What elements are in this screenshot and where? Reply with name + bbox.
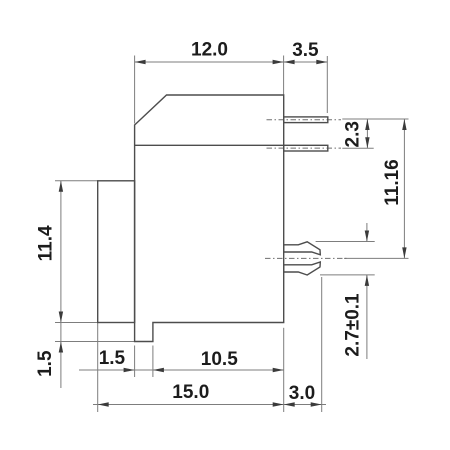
svg-text:12.0: 12.0 <box>191 40 228 61</box>
svg-text:11.4: 11.4 <box>36 225 57 261</box>
svg-text:1.5: 1.5 <box>99 348 126 369</box>
svg-text:2.7±0.1: 2.7±0.1 <box>343 293 364 357</box>
svg-text:15.0: 15.0 <box>172 382 209 403</box>
svg-text:2.3: 2.3 <box>343 121 364 147</box>
svg-text:3.0: 3.0 <box>289 383 315 404</box>
svg-text:1.5: 1.5 <box>35 350 56 377</box>
svg-text:11.16: 11.16 <box>382 159 403 206</box>
svg-text:3.5: 3.5 <box>292 40 319 61</box>
svg-text:10.5: 10.5 <box>201 349 238 370</box>
